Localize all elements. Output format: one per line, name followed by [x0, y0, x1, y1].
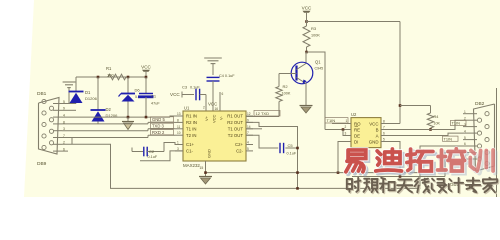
svg-text:Q1: Q1 [315, 60, 321, 65]
svg-text:16: 16 [215, 107, 219, 111]
svg-text:10K: 10K [434, 122, 441, 126]
svg-text:DB2: DB2 [475, 101, 485, 107]
svg-text:4: 4 [464, 129, 466, 133]
svg-text:T2 OUT: T2 OUT [228, 133, 244, 138]
svg-text:12: 12 [247, 112, 251, 116]
svg-text:R3: R3 [311, 26, 317, 31]
svg-text:C1-: C1- [186, 149, 193, 154]
svg-text:T1IN: T1IN [327, 118, 336, 123]
svg-text:13: 13 [177, 112, 181, 116]
svg-text:0.1uF: 0.1uF [148, 155, 158, 159]
svg-text:TXD 3: TXD 3 [152, 124, 165, 129]
svg-text:10: 10 [177, 131, 181, 135]
svg-text:VCC: VCC [141, 65, 151, 70]
svg-text:7: 7 [383, 126, 385, 130]
svg-text:1: 1 [464, 110, 466, 114]
svg-text:100: 100 [107, 72, 114, 77]
svg-text:2: 2 [464, 116, 466, 120]
svg-text:5: 5 [247, 147, 249, 151]
svg-text:8: 8 [177, 118, 179, 122]
svg-text:8: 8 [383, 120, 385, 124]
svg-text:4: 4 [247, 141, 249, 145]
svg-text:A: A [376, 133, 379, 138]
svg-text:T1 IN: T1 IN [186, 127, 197, 132]
svg-text:D1206: D1206 [85, 96, 98, 101]
svg-text:T1IN: T1IN [452, 121, 461, 126]
svg-text:D1: D1 [85, 90, 91, 95]
svg-text:RO: RO [354, 121, 361, 126]
svg-text:1: 1 [346, 119, 348, 123]
svg-text:R2 IN: R2 IN [186, 120, 197, 125]
svg-text:C1+: C1+ [186, 142, 194, 147]
svg-text:V-: V- [219, 116, 224, 120]
svg-text:0.1uF: 0.1uF [190, 86, 200, 90]
svg-text:R1 OUT: R1 OUT [227, 114, 243, 119]
svg-text:U1: U1 [184, 106, 190, 111]
svg-text:1: 1 [177, 141, 179, 145]
svg-text:B: B [376, 127, 379, 132]
svg-text:3: 3 [345, 132, 347, 136]
svg-text:VCC: VCC [302, 6, 312, 11]
svg-text:C2+: C2+ [235, 142, 243, 147]
svg-text:2: 2 [203, 106, 205, 110]
svg-text:DB9: DB9 [37, 161, 47, 167]
svg-text:100K: 100K [282, 92, 291, 96]
svg-text:C3: C3 [182, 85, 188, 90]
svg-text:GND 5: GND 5 [152, 117, 165, 122]
svg-text:6: 6 [383, 132, 385, 136]
svg-text:9: 9 [247, 118, 249, 122]
svg-text:R1 IN: R1 IN [186, 114, 197, 119]
svg-text:100K: 100K [311, 34, 320, 38]
svg-text:GND: GND [207, 149, 212, 158]
svg-text:6: 6 [464, 142, 466, 146]
svg-text:DE: DE [354, 133, 360, 138]
svg-text:V+: V+ [204, 115, 209, 121]
svg-text:RE: RE [354, 127, 360, 132]
svg-text:RXD 2: RXD 2 [152, 130, 165, 135]
svg-text:C5: C5 [288, 143, 294, 148]
svg-text:6: 6 [222, 92, 224, 96]
svg-text:VCC: VCC [212, 114, 217, 123]
svg-text:R4: R4 [434, 115, 439, 119]
svg-text:VCC: VCC [170, 92, 180, 97]
svg-text:C2-: C2- [236, 149, 243, 154]
svg-text:47uF: 47uF [151, 102, 160, 106]
svg-text:R1: R1 [106, 66, 112, 71]
svg-text:R2: R2 [283, 84, 289, 89]
svg-text:C4 0.1uF: C4 0.1uF [219, 74, 235, 78]
svg-text:12 TXD: 12 TXD [256, 111, 270, 116]
svg-text:VCC: VCC [208, 102, 217, 107]
svg-text:2: 2 [345, 125, 347, 129]
svg-text:5: 5 [383, 138, 385, 142]
svg-text:R2 OUT: R2 OUT [227, 120, 243, 125]
svg-text:14: 14 [247, 125, 251, 129]
svg-text:C1: C1 [151, 94, 157, 99]
svg-text:T1 OUT: T1 OUT [228, 127, 244, 132]
svg-text:DB1: DB1 [37, 91, 47, 97]
svg-text:GND: GND [369, 139, 379, 144]
svg-text:T1IN: T1IN [444, 136, 453, 141]
svg-text:0.1uF: 0.1uF [287, 152, 297, 156]
svg-text:3: 3 [177, 147, 179, 151]
svg-text:C945: C945 [315, 67, 324, 71]
svg-text:5: 5 [464, 136, 466, 140]
svg-text:15: 15 [200, 166, 204, 170]
svg-text:11: 11 [177, 125, 181, 129]
svg-text:D2: D2 [106, 107, 112, 112]
svg-text:U2: U2 [351, 112, 357, 117]
svg-text:7: 7 [247, 131, 249, 135]
svg-text:C2: C2 [149, 149, 155, 154]
svg-text:D6: D6 [135, 88, 141, 93]
svg-text:T2 IN: T2 IN [186, 133, 197, 138]
svg-text:VCC: VCC [369, 121, 378, 126]
svg-text:DI: DI [354, 139, 358, 144]
svg-text:MAX232: MAX232 [183, 163, 200, 168]
